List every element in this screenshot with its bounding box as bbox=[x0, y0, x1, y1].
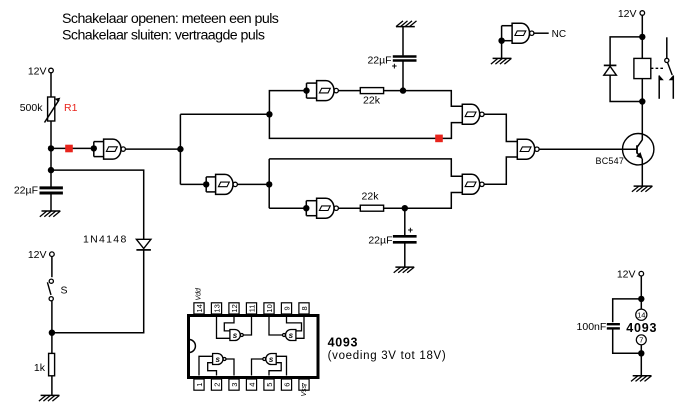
capacitor C3 22µF electrolytic bbox=[368, 225, 416, 247]
wire node C to U2A top input bbox=[269, 159, 462, 176]
ground (below C1) bbox=[40, 211, 61, 217]
svg-text:4093: 4093 bbox=[626, 321, 657, 335]
title text bbox=[62, 11, 279, 44]
svg-text:9: 9 bbox=[282, 306, 291, 310]
wire C4 to IC power bottom junction bbox=[613, 329, 642, 353]
pin 7 label circled bbox=[636, 335, 646, 345]
wire R1 to node A and capacitor bbox=[50, 121, 52, 187]
resistor R3 22k bbox=[360, 191, 383, 212]
svg-text:BC547: BC547 bbox=[596, 156, 625, 166]
wire mid node down to U1D input (with marker) bbox=[269, 114, 462, 138]
svg-text:100nF: 100nF bbox=[577, 321, 607, 333]
svg-text:22µF: 22µF bbox=[14, 185, 38, 197]
pin 14 label circled bbox=[636, 309, 647, 320]
wire 12V to R1 bbox=[50, 73, 52, 97]
svg-text:4093: 4093 bbox=[328, 336, 359, 350]
svg-text:(voeding 3V tot 18V): (voeding 3V tot 18V) bbox=[328, 350, 447, 362]
svg-text:s: s bbox=[269, 355, 274, 364]
node A junction bbox=[48, 145, 54, 151]
node 12V supply top-left bbox=[28, 66, 53, 78]
pin 2 bbox=[211, 379, 221, 390]
wire C1 to ground bbox=[50, 195, 52, 212]
node B junction bbox=[400, 87, 406, 93]
wire U1C output to node C bbox=[237, 183, 269, 185]
pin 13 bbox=[211, 303, 221, 314]
op-amp gate U1B (schmitt NAND, inputs tied) bbox=[303, 81, 338, 101]
diode D1 1N4148 bbox=[83, 234, 151, 250]
svg-text:14: 14 bbox=[637, 311, 645, 320]
op-amp gate U2A (schmitt NAND 2-input) bbox=[462, 104, 484, 124]
svg-text:3: 3 bbox=[230, 383, 239, 387]
wire to diode D2 branch bbox=[610, 37, 642, 65]
svg-text:+: + bbox=[408, 225, 413, 235]
op-amp gate U1E (schmitt NAND, inputs tied) bbox=[303, 198, 338, 218]
wire relay coil to bottom junction bbox=[641, 79, 643, 140]
internal gate 1 (pins 12,13 -> 11) bbox=[217, 317, 252, 341]
wire node D to C3 bbox=[404, 208, 406, 236]
svg-text:4: 4 bbox=[247, 383, 256, 387]
wire 12V to IC power node bbox=[640, 276, 642, 309]
pin 7 bbox=[299, 379, 309, 390]
svg-text:1k: 1k bbox=[34, 362, 46, 374]
node switch junction bbox=[49, 330, 55, 336]
IC notch bbox=[190, 340, 195, 353]
relay contact terminal right bbox=[669, 75, 674, 99]
wire D2 to bottom junction bbox=[610, 75, 642, 101]
pin 5 bbox=[264, 379, 274, 390]
wire node C to U1E input bbox=[269, 207, 306, 209]
node A2 junction bbox=[48, 167, 54, 173]
ground (below C3) bbox=[394, 267, 415, 273]
node D junction bbox=[402, 205, 408, 211]
capacitor C2 22µF electrolytic bbox=[367, 55, 416, 72]
op-amp gate U1A (schmitt NAND, inputs tied) bbox=[91, 139, 126, 159]
svg-text:22µF: 22µF bbox=[368, 235, 392, 247]
pin 8 bbox=[299, 303, 309, 314]
wire U2C output to Q1 base bbox=[539, 148, 637, 150]
wire node A2 to diode D1 bbox=[51, 170, 144, 239]
ground (below 1k) bbox=[39, 395, 60, 401]
svg-text:14: 14 bbox=[195, 304, 204, 312]
op-amp gate U2B (schmitt NAND 2-input) bbox=[462, 174, 484, 194]
svg-text:R1: R1 bbox=[64, 102, 78, 114]
wire R3 to node D and U2A bottom input bbox=[384, 193, 463, 209]
wire splitter vertical bbox=[179, 114, 181, 184]
resistor R4 1k bbox=[34, 353, 55, 375]
IC body outline bbox=[189, 316, 319, 378]
svg-text:12: 12 bbox=[230, 304, 239, 312]
svg-text:6: 6 bbox=[282, 383, 291, 387]
pin 3 bbox=[229, 379, 239, 390]
wire Q1 emitter to ground bbox=[641, 159, 643, 186]
wire C2 to top ground bbox=[402, 27, 404, 56]
svg-text:Vss: Vss bbox=[301, 384, 308, 396]
ground (below U2D) bbox=[491, 58, 512, 64]
op-amp gate U2C (schmitt NAND 2-input) bbox=[517, 139, 539, 159]
wire U2B output to U2C bottom input bbox=[484, 157, 517, 184]
svg-text:Schakelaar sluiten: vertraagde: Schakelaar sluiten: vertraagde puls bbox=[62, 27, 265, 43]
svg-text:12V: 12V bbox=[28, 66, 47, 78]
wire U1A output to splitter node bbox=[125, 148, 180, 150]
svg-text:2: 2 bbox=[212, 383, 221, 387]
IC type label bbox=[328, 336, 447, 363]
ground (flipped, above C2) bbox=[396, 21, 417, 27]
svg-text:Vdd: Vdd bbox=[196, 287, 203, 301]
internal gate 2 (pins 8,9 -> 10) bbox=[269, 317, 304, 341]
wire U2D inputs to ground bbox=[501, 41, 503, 59]
pin 4 bbox=[246, 379, 256, 390]
wire node C vertical bbox=[268, 159, 270, 208]
diode D2 (freewheel) bbox=[604, 65, 617, 75]
pin 10 bbox=[264, 303, 274, 314]
ground (IC power) bbox=[631, 376, 652, 382]
relay contact terminal left bbox=[659, 75, 664, 99]
op-amp gate U1C (schmitt NAND, inputs tied) bbox=[203, 174, 237, 194]
svg-text:13: 13 bbox=[212, 304, 221, 312]
svg-text:12V: 12V bbox=[617, 269, 636, 281]
pin 6 bbox=[281, 379, 291, 390]
pin 14 bbox=[194, 303, 204, 314]
transistor Q1 BC547 bbox=[596, 134, 654, 166]
svg-text:S: S bbox=[61, 285, 68, 297]
svg-text:10: 10 bbox=[265, 304, 274, 312]
svg-text:s: s bbox=[289, 331, 294, 340]
svg-text:1N4148: 1N4148 bbox=[83, 234, 128, 246]
wire node A to gate U1A input bbox=[51, 147, 94, 149]
pin 12 bbox=[229, 303, 239, 314]
svg-text:1: 1 bbox=[195, 383, 204, 387]
wire U2D output NC bbox=[534, 29, 566, 40]
svg-text:12V: 12V bbox=[28, 249, 47, 261]
capacitor C1 22µF bbox=[14, 185, 63, 197]
resistor R1 500k potentiometer bbox=[20, 97, 78, 123]
svg-text:5: 5 bbox=[265, 383, 274, 387]
wire 12V to switch S bbox=[51, 257, 53, 278]
wire U2A output to U2C top input bbox=[484, 114, 517, 141]
svg-text:s: s bbox=[233, 331, 238, 340]
wire splitter top branch bbox=[180, 113, 269, 115]
wire splitter bottom branch to U1C bbox=[180, 183, 206, 185]
svg-text:22k: 22k bbox=[363, 95, 381, 107]
node IC power bottom junction bbox=[638, 350, 644, 356]
resistor R2 22k bbox=[360, 88, 383, 107]
IC U1 4093 pinout diagram bbox=[189, 287, 319, 397]
wire mid node up to U1B bbox=[269, 91, 306, 115]
pin 1 bbox=[194, 379, 204, 390]
node IC power top junction bbox=[638, 296, 644, 302]
internal gate 4 (pins 5,6 -> 4) bbox=[252, 354, 287, 376]
relay K1 coil bbox=[634, 58, 651, 78]
pin 11 bbox=[246, 303, 256, 314]
pin 9 bbox=[281, 303, 291, 314]
svg-text:22k: 22k bbox=[362, 191, 380, 203]
wire 1k to ground bbox=[51, 376, 53, 396]
wire D1 to switch node bbox=[52, 250, 144, 333]
ground (below Q1) bbox=[632, 186, 653, 192]
wire 12V to relay node bbox=[641, 15, 643, 58]
svg-text:NC: NC bbox=[552, 29, 566, 40]
wire to C4 branch bbox=[613, 299, 642, 322]
relay contact (dashed link) bbox=[651, 67, 664, 69]
node relay top junction bbox=[639, 34, 645, 40]
node C junction bbox=[266, 181, 272, 187]
node mid junction bbox=[266, 111, 272, 117]
node marker red square (gate input node) bbox=[65, 145, 73, 153]
wire C3 to ground bbox=[404, 243, 406, 267]
internal gate 3 (pins 1,2 -> 3) bbox=[199, 354, 234, 376]
svg-text:11: 11 bbox=[247, 305, 256, 313]
svg-text:12V: 12V bbox=[618, 8, 637, 20]
node splitter junction bbox=[177, 146, 183, 152]
node relay bottom junction bbox=[639, 98, 645, 104]
node 12V supply (relay branch) bbox=[618, 8, 645, 20]
wire R2 to node B and to U1D top input bbox=[384, 91, 463, 107]
svg-text:s: s bbox=[215, 355, 220, 364]
wire pin7 to bottom junction bbox=[640, 345, 642, 376]
svg-text:Schakelaar openen: meteen een: Schakelaar openen: meteen een puls bbox=[62, 11, 279, 27]
svg-text:22µF: 22µF bbox=[367, 55, 391, 67]
wire U1E output to R3 bbox=[338, 207, 360, 209]
wire switch to 1k resistor bbox=[51, 301, 53, 353]
node 12V supply (IC power) bbox=[617, 269, 644, 281]
wire node B to C2 bbox=[402, 62, 404, 91]
svg-text:+: + bbox=[392, 61, 397, 71]
svg-text:8: 8 bbox=[300, 306, 309, 310]
svg-text:7: 7 bbox=[639, 336, 643, 345]
node marker red square (U1D input) bbox=[435, 135, 443, 143]
capacitor C4 100nF bbox=[577, 321, 620, 333]
wire U1B output to R2 bbox=[338, 90, 360, 92]
node 12V supply (switch branch) bbox=[28, 249, 54, 261]
relay contact pole bbox=[665, 37, 673, 75]
switch S bbox=[47, 279, 67, 301]
svg-text:500k: 500k bbox=[20, 102, 44, 114]
op-amp gate U2D (unused, inputs tied to ground) bbox=[498, 23, 534, 44]
